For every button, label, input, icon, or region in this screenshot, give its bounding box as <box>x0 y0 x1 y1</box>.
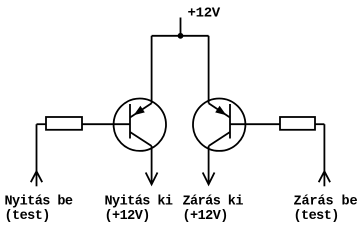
transistor Q1 base bar <box>129 104 131 139</box>
resistor R1 body <box>46 117 82 130</box>
svg-text:(test): (test) <box>5 209 50 224</box>
svg-text:Zárás be: Zárás be <box>294 194 358 209</box>
wire R2 right segment <box>315 123 324 125</box>
wire left input vertical <box>36 124 38 186</box>
arrow right input (up) <box>319 171 330 182</box>
svg-text:(+12V): (+12V) <box>183 209 228 224</box>
wire Q2 base to R2 <box>230 123 280 125</box>
transistor Q2 emitter arrow (PNP) <box>215 106 226 116</box>
transistor Q2 emitter diagonal <box>209 103 230 117</box>
arrow Q1 collector output (down) <box>146 173 158 185</box>
resistor R2 body <box>280 117 315 130</box>
svg-text:(+12V): (+12V) <box>105 209 150 224</box>
transistor Q1 emitter arrow (PNP) <box>134 106 145 116</box>
transistor Q1 circle <box>114 99 166 151</box>
transistor Q2 collector diagonal <box>209 132 230 146</box>
arrow left input (up) <box>31 171 42 182</box>
transistor Q1 emitter diagonal <box>130 103 152 117</box>
wire Q2 emitter vertical <box>208 36 210 104</box>
wire +12V stub <box>180 18 182 37</box>
svg-text:Zárás ki: Zárás ki <box>183 194 244 209</box>
wire Q1 collector vertical <box>151 146 153 184</box>
transistor Q2 circle <box>193 99 245 151</box>
svg-text:Nyitás ki: Nyitás ki <box>105 194 173 209</box>
wire R1 base wire left segment <box>37 123 47 125</box>
transistor Q1 collector diagonal <box>130 132 152 146</box>
wire +12V rail <box>152 35 209 37</box>
svg-text:Nyitás be: Nyitás be <box>5 194 73 209</box>
wire R1 to Q1 base <box>82 123 130 125</box>
transistor Q2 base bar <box>229 104 231 139</box>
wire Q2 collector vertical <box>208 146 210 184</box>
node junction dot <box>178 33 184 39</box>
svg-text:(test): (test) <box>294 209 339 224</box>
svg-text:+12V: +12V <box>188 6 221 22</box>
wire Q1 emitter vertical <box>151 36 153 104</box>
arrow Q2 collector output (down) <box>203 173 215 185</box>
wire right input vertical <box>323 124 325 186</box>
